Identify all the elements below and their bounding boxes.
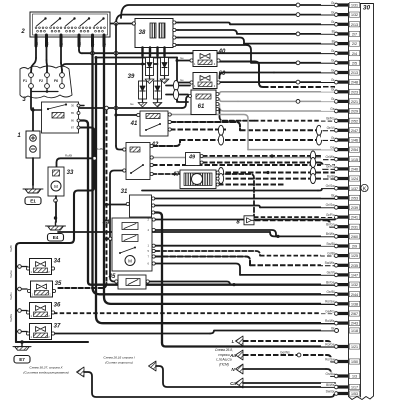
svg-text:1/38: 1/38 xyxy=(351,302,358,306)
svg-text:15: 15 xyxy=(46,41,50,45)
svg-text:61: 61 xyxy=(198,104,205,110)
svg-text:Gr/Ro: Gr/Ro xyxy=(326,165,335,169)
svg-text:1/24: 1/24 xyxy=(351,177,358,181)
svg-text:(Система кондиционирования): (Система кондиционирования) xyxy=(23,371,68,375)
svg-text:Br/Ge: Br/Ge xyxy=(326,280,335,284)
svg-text:1/18: 1/18 xyxy=(351,329,358,333)
svg-text:44: 44 xyxy=(102,220,110,226)
svg-text:F6: F6 xyxy=(54,79,58,83)
svg-text:Ge/Vi: Ge/Vi xyxy=(327,271,335,275)
svg-text:2/31: 2/31 xyxy=(351,225,358,229)
svg-text:38: 38 xyxy=(139,30,146,36)
svg-text:2: 2 xyxy=(20,29,25,35)
svg-text:1/3: 1/3 xyxy=(352,375,357,379)
svg-text:45: 45 xyxy=(108,274,116,280)
svg-text:Ro/Ws: Ro/Ws xyxy=(325,319,335,323)
svg-text:1/17: 1/17 xyxy=(351,386,358,390)
svg-text:Sw/Bl: Sw/Bl xyxy=(9,245,13,252)
svg-text:47: 47 xyxy=(172,172,180,178)
svg-text:строки: строки xyxy=(218,353,230,357)
svg-text:Bl/Ws: Bl/Ws xyxy=(326,383,335,387)
svg-text:50: 50 xyxy=(78,41,82,45)
svg-text:E1: E1 xyxy=(30,199,36,204)
svg-text:1/25: 1/25 xyxy=(351,254,358,258)
svg-text:Ge/Vi: Ge/Vi xyxy=(327,126,335,130)
svg-text:Sw/Gn: Sw/Gn xyxy=(9,270,13,278)
svg-text:Ro/Bl: Ro/Bl xyxy=(96,147,103,151)
svg-text:Gr/Ro: Gr/Ro xyxy=(326,213,335,217)
svg-text:31: 31 xyxy=(121,189,128,195)
svg-text:(ПСМ): (ПСМ) xyxy=(219,362,229,366)
svg-text:2/9: 2/9 xyxy=(352,245,357,249)
svg-text:2/13: 2/13 xyxy=(351,23,358,27)
svg-text:Схема 26.8,: Схема 26.8, xyxy=(215,348,233,352)
svg-text:Br/Gn: Br/Gn xyxy=(326,223,335,227)
svg-text:E4: E4 xyxy=(53,235,59,240)
svg-text:Gr/Ws: Gr/Ws xyxy=(325,155,334,159)
svg-text:2/41: 2/41 xyxy=(351,216,358,220)
svg-text:E7: E7 xyxy=(19,357,25,362)
svg-text:1/21: 1/21 xyxy=(351,345,358,349)
svg-text:F2: F2 xyxy=(39,79,43,83)
svg-text:Sw/Bl: Sw/Bl xyxy=(326,242,334,246)
svg-text:39: 39 xyxy=(128,74,135,80)
svg-text:M: M xyxy=(128,259,132,264)
svg-text:Ca: Ca xyxy=(230,381,236,386)
svg-text:36: 36 xyxy=(54,303,61,309)
svg-text:2/13: 2/13 xyxy=(351,71,358,75)
svg-text:1/46: 1/46 xyxy=(351,139,358,143)
svg-text:41: 41 xyxy=(130,121,138,127)
svg-text:2/67: 2/67 xyxy=(351,312,358,316)
svg-text:2/44: 2/44 xyxy=(351,293,358,297)
svg-text:1/32: 1/32 xyxy=(351,283,358,287)
svg-text:1/37: 1/37 xyxy=(351,187,358,191)
svg-text:Sw/Ws: Sw/Ws xyxy=(325,261,335,265)
svg-text:49: 49 xyxy=(188,155,196,161)
svg-text:1/32: 1/32 xyxy=(351,13,358,17)
svg-text:Схема 36,37, строка X: Схема 36,37, строка X xyxy=(29,366,63,370)
svg-text:2/4: 2/4 xyxy=(352,52,357,56)
svg-text:30: 30 xyxy=(363,5,371,12)
svg-text:2/35: 2/35 xyxy=(351,264,358,268)
svg-text:Ge/Ws: Ge/Ws xyxy=(280,350,290,354)
svg-text:37: 37 xyxy=(54,324,61,330)
svg-text:2/47: 2/47 xyxy=(351,129,358,133)
svg-text:Ge/Ro: Ge/Ro xyxy=(325,309,334,313)
svg-text:Ge: Ge xyxy=(130,102,134,106)
svg-text:Br/Ro: Br/Ro xyxy=(326,117,334,121)
svg-text:M: M xyxy=(54,184,58,189)
svg-text:Sw/Gr: Sw/Gr xyxy=(326,389,336,393)
svg-text:2/54: 2/54 xyxy=(351,148,358,152)
svg-text:60: 60 xyxy=(219,71,226,77)
svg-text:Bl: Bl xyxy=(332,30,335,34)
svg-text:Sw/Ro: Sw/Ro xyxy=(9,292,13,300)
svg-text:Ro/Ge: Ro/Ge xyxy=(325,342,334,346)
svg-text:2/5: 2/5 xyxy=(352,61,357,65)
svg-text:2/43: 2/43 xyxy=(351,322,358,326)
svg-text:2/21: 2/21 xyxy=(351,100,358,104)
svg-text:Ro/Sw: Ro/Sw xyxy=(325,357,335,361)
svg-text:2/39: 2/39 xyxy=(351,206,358,210)
svg-text:Ge/Bl: Ge/Bl xyxy=(327,290,335,294)
svg-text:2/60: 2/60 xyxy=(351,235,358,239)
svg-text:Ro/Bl: Ro/Bl xyxy=(65,154,72,158)
svg-text:34: 34 xyxy=(54,259,61,265)
svg-text:F1: F1 xyxy=(23,79,27,83)
svg-text:(Сигнал скорости): (Сигнал скорости) xyxy=(105,361,133,365)
svg-text:2/48: 2/48 xyxy=(351,81,358,85)
svg-text:1/50: 1/50 xyxy=(351,360,358,364)
svg-text:2/2: 2/2 xyxy=(352,42,357,46)
svg-text:Ro/Sw: Ro/Sw xyxy=(325,300,335,304)
svg-text:Bu/Bl: Bu/Bl xyxy=(327,174,335,178)
svg-text:2/29: 2/29 xyxy=(351,110,358,114)
svg-text:Bl: Bl xyxy=(332,39,335,43)
svg-text:2/40: 2/40 xyxy=(351,168,358,172)
svg-text:2/53: 2/53 xyxy=(351,196,358,200)
svg-text:33: 33 xyxy=(67,170,74,176)
svg-text:30: 30 xyxy=(35,41,39,45)
svg-text:Gr/Bl: Gr/Bl xyxy=(327,251,335,255)
svg-text:35: 35 xyxy=(55,281,62,287)
svg-text:Ge: Ge xyxy=(180,56,184,60)
svg-text:1/15: 1/15 xyxy=(351,158,358,162)
svg-text:Ge: Ge xyxy=(330,145,334,149)
svg-text:2/7: 2/7 xyxy=(352,33,357,37)
svg-text:40: 40 xyxy=(218,49,226,55)
svg-text:Ge: Ge xyxy=(180,78,184,82)
svg-text:Gr/Sw: Gr/Sw xyxy=(326,203,336,207)
svg-text:Схема 26,16 строка I: Схема 26,16 строка I xyxy=(103,356,134,360)
svg-text:1/53: 1/53 xyxy=(351,392,358,396)
svg-text:Gn/Bu: Gn/Bu xyxy=(325,372,334,376)
svg-text:X: X xyxy=(60,43,64,45)
svg-text:L: L xyxy=(232,339,235,344)
svg-text:1/31: 1/31 xyxy=(351,4,358,8)
svg-text:Ge: Ge xyxy=(330,107,334,111)
svg-text:Br/Ws: Br/Ws xyxy=(326,232,335,236)
svg-text:Sw/Ws: Sw/Ws xyxy=(9,313,13,322)
svg-text:Gr/Sw: Gr/Sw xyxy=(326,184,336,188)
svg-text:2/23: 2/23 xyxy=(351,90,358,94)
svg-text:L,N,Aa,Ca: L,N,Aa,Ca xyxy=(216,358,231,362)
svg-text:1/47: 1/47 xyxy=(351,274,358,278)
svg-text:2/52: 2/52 xyxy=(351,119,358,123)
svg-text:P: P xyxy=(92,43,96,45)
